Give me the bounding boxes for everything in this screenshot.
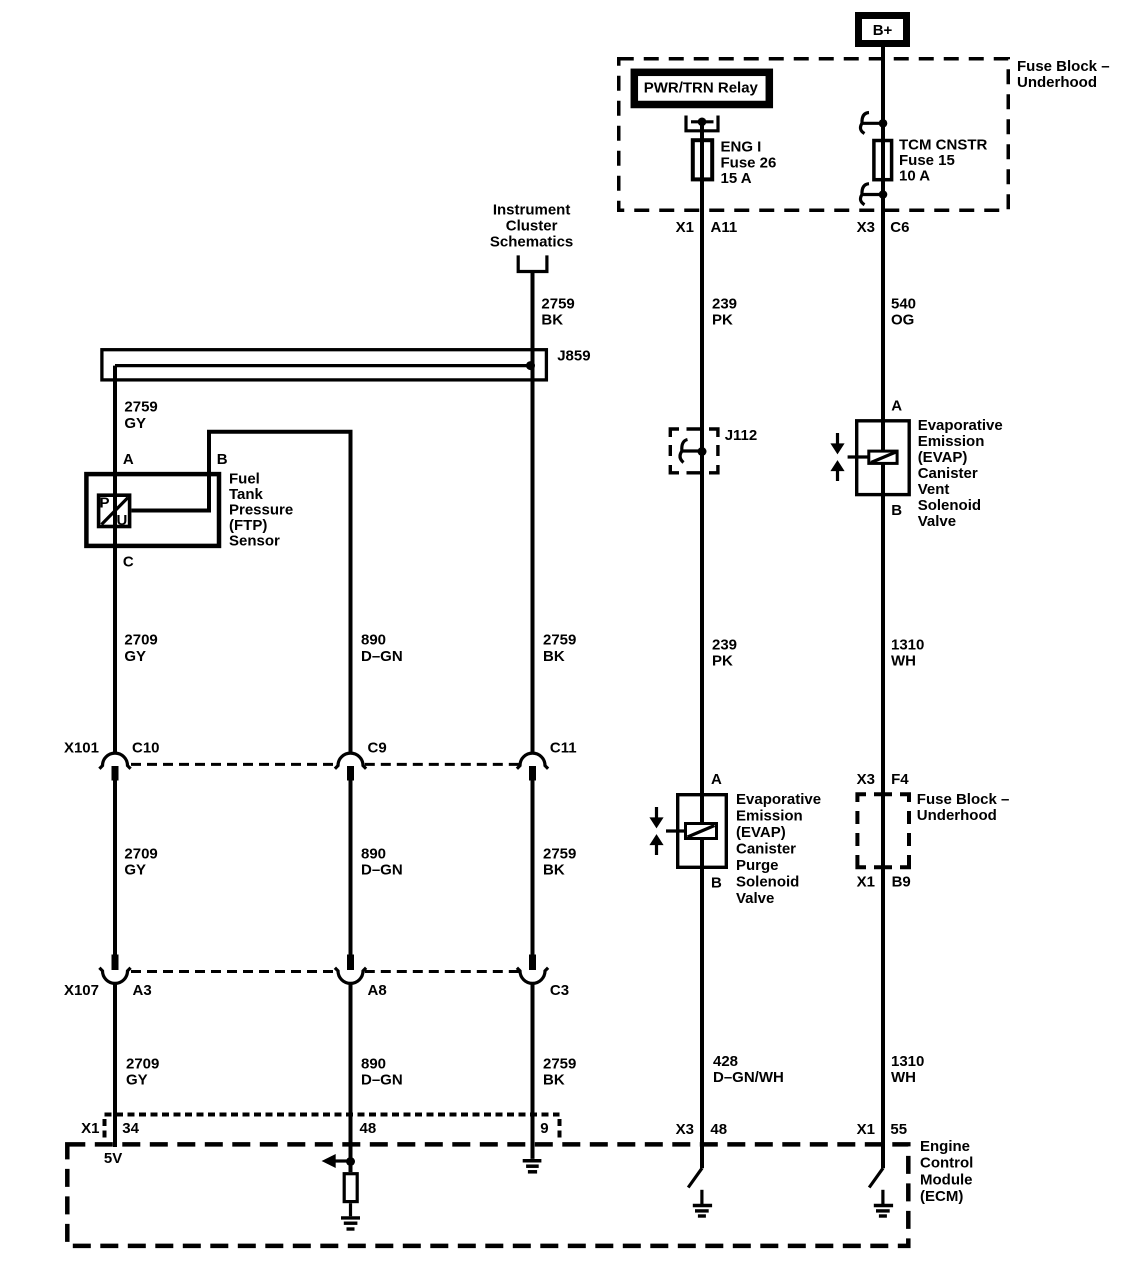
svg-text:890: 890 xyxy=(361,1055,386,1072)
svg-text:2709: 2709 xyxy=(124,845,157,862)
svg-text:J112: J112 xyxy=(725,427,758,444)
svg-text:Engine: Engine xyxy=(920,1138,970,1155)
svg-text:Purge: Purge xyxy=(736,857,779,874)
ground (pin 48 resistor) xyxy=(341,1218,360,1229)
svg-text:Vent: Vent xyxy=(918,481,950,498)
label EVAP canister vent xyxy=(918,417,1003,530)
svg-text:BK: BK xyxy=(543,648,565,665)
fuse block underhood 2 labels X3 F4 xyxy=(857,771,910,788)
svg-text:B: B xyxy=(217,451,228,468)
B+ power symbol xyxy=(859,16,907,44)
junction dot under relay xyxy=(698,118,707,127)
svg-text:Fuel: Fuel xyxy=(229,470,260,487)
fuse block underhood dashed box xyxy=(619,59,1009,211)
svg-text:Module: Module xyxy=(920,1171,973,1188)
svg-text:A: A xyxy=(891,398,902,415)
svg-text:P: P xyxy=(100,494,110,511)
ground (pin 9) xyxy=(523,1161,542,1172)
svg-text:D–GN/WH: D–GN/WH xyxy=(713,1069,784,1086)
svg-text:Valve: Valve xyxy=(918,513,956,530)
svg-text:Solenoid: Solenoid xyxy=(736,873,799,890)
svg-text:Cluster: Cluster xyxy=(506,217,558,234)
svg-text:WH: WH xyxy=(891,1069,916,1086)
svg-text:2759: 2759 xyxy=(543,632,576,649)
P/U transducer box xyxy=(99,494,130,529)
svg-text:J859: J859 xyxy=(557,347,590,364)
svg-text:ENG I: ENG I xyxy=(721,139,762,156)
connector terminal C10 xyxy=(99,739,159,780)
svg-text:C6: C6 xyxy=(890,219,909,236)
label 890 D-GN (row 1) xyxy=(361,632,403,665)
svg-text:890: 890 xyxy=(361,632,386,649)
ECM dashed box xyxy=(67,1144,908,1246)
svg-text:B+: B+ xyxy=(873,22,893,39)
svg-text:(ECM): (ECM) xyxy=(920,1188,963,1205)
label 540 OG xyxy=(891,296,916,329)
svg-text:B: B xyxy=(711,874,722,891)
splice J112 xyxy=(670,427,757,473)
svg-text:PK: PK xyxy=(712,653,733,670)
svg-text:X1: X1 xyxy=(81,1120,99,1137)
svg-text:Sensor: Sensor xyxy=(229,533,280,550)
svg-text:X1: X1 xyxy=(857,874,875,891)
connector X101 dashed line xyxy=(64,739,520,764)
svg-text:55: 55 xyxy=(890,1121,907,1138)
label Instrument Cluster Schematics xyxy=(490,201,573,250)
svg-text:BK: BK xyxy=(543,1072,565,1089)
wire 890 D-GN column: sensor B terminal jog down to ECM xyxy=(209,432,351,754)
svg-text:TCM CNSTR: TCM CNSTR xyxy=(899,136,987,153)
svg-text:X101: X101 xyxy=(64,739,99,756)
svg-text:GY: GY xyxy=(124,415,146,432)
relay output terminal cup xyxy=(686,116,718,131)
label 428 D-GN/WH xyxy=(713,1053,784,1086)
svg-text:Evaporative: Evaporative xyxy=(918,417,1003,434)
svg-text:B9: B9 xyxy=(892,874,911,891)
svg-text:X1: X1 xyxy=(676,219,694,236)
svg-text:BK: BK xyxy=(541,312,563,329)
label 890 D-GN (row 2) xyxy=(361,845,403,878)
svg-text:2709: 2709 xyxy=(126,1055,159,1072)
svg-text:1310: 1310 xyxy=(891,636,924,653)
label Fuse Block - Underhood (2) xyxy=(917,791,1010,824)
svg-text:9: 9 xyxy=(540,1120,548,1137)
label 2709 GY (row 2) xyxy=(124,845,157,878)
wire 2759 BK column from bracket to ECM ground xyxy=(531,272,535,755)
svg-text:B: B xyxy=(891,502,902,519)
svg-text:Fuse 15: Fuse 15 xyxy=(899,152,955,169)
svg-text:10 A: 10 A xyxy=(899,168,930,185)
svg-text:48: 48 xyxy=(710,1121,727,1138)
label 1310 WH (mid) xyxy=(891,636,924,669)
svg-text:X3: X3 xyxy=(676,1121,694,1138)
svg-text:2709: 2709 xyxy=(124,632,157,649)
svg-text:Tank: Tank xyxy=(229,486,264,503)
label 2759 BK (row 2) xyxy=(543,845,576,878)
svg-text:X107: X107 xyxy=(64,982,99,999)
svg-text:C3: C3 xyxy=(550,982,569,999)
label 1310 WH (bottom) xyxy=(891,1053,924,1086)
svg-text:Canister: Canister xyxy=(918,465,978,482)
EVAP canister vent solenoid valve xyxy=(830,398,909,519)
svg-text:Schematics: Schematics xyxy=(490,233,573,250)
svg-text:A11: A11 xyxy=(711,219,738,236)
fuse TCM CNSTR Fuse 15 xyxy=(874,136,988,184)
svg-text:F4: F4 xyxy=(891,771,909,788)
svg-text:2759: 2759 xyxy=(124,399,157,416)
fuse block underhood 2 labels X1 B9 xyxy=(857,874,911,891)
label EVAP canister purge xyxy=(736,791,821,907)
ECM switch pin 55 (X1) xyxy=(869,1168,883,1204)
svg-text:34: 34 xyxy=(122,1120,139,1137)
wire 540 OG / 1310 WH column from B+ to ECM xyxy=(881,47,885,1168)
svg-text:Underhood: Underhood xyxy=(917,807,997,824)
svg-text:428: 428 xyxy=(713,1053,738,1070)
svg-text:BK: BK xyxy=(543,862,565,879)
fuse clip top xyxy=(860,113,887,134)
ECM connector X1 dotted line xyxy=(105,1115,560,1139)
svg-text:PWR/TRN Relay: PWR/TRN Relay xyxy=(644,80,759,97)
svg-text:(EVAP): (EVAP) xyxy=(736,824,786,841)
svg-text:Fuse 26: Fuse 26 xyxy=(721,154,777,171)
ground (X1 55) xyxy=(874,1206,893,1217)
svg-text:GY: GY xyxy=(124,862,146,879)
svg-text:A: A xyxy=(711,771,722,788)
pin labels X1 A11 xyxy=(676,219,738,236)
svg-text:Fuse Block –: Fuse Block – xyxy=(917,791,1010,808)
svg-text:PK: PK xyxy=(712,312,733,329)
svg-text:239: 239 xyxy=(712,636,737,653)
connector terminal C9 xyxy=(335,739,387,780)
svg-text:X1: X1 xyxy=(857,1121,875,1138)
label 2759 BK (top) xyxy=(541,296,574,329)
svg-text:GY: GY xyxy=(126,1072,148,1089)
relay PWR/TRN xyxy=(634,72,769,104)
svg-text:GY: GY xyxy=(124,648,146,665)
wire resistor to ground xyxy=(349,1203,352,1216)
svg-text:C10: C10 xyxy=(132,739,160,756)
svg-text:D–GN: D–GN xyxy=(361,1072,403,1089)
connector terminal A3 xyxy=(99,955,151,999)
fuse clip bottom xyxy=(860,184,887,205)
label 2759 BK (bottom) xyxy=(543,1055,576,1088)
splice pack J859 box xyxy=(102,347,591,380)
ECM internal: junction dot pin 48 xyxy=(346,1157,355,1166)
label Engine Control Module (ECM) xyxy=(920,1138,973,1205)
fuse ENG I Fuse 26 xyxy=(693,139,777,187)
ECM switch pin 48 (X3) xyxy=(688,1168,702,1204)
svg-text:OG: OG xyxy=(891,312,914,329)
resistor in ECM xyxy=(344,1174,357,1202)
label 2709 GY (row 1) xyxy=(124,632,157,665)
FTP sensor box xyxy=(86,474,219,546)
pin labels X3 C6 xyxy=(857,219,910,236)
svg-text:Underhood: Underhood xyxy=(1017,74,1097,91)
svg-text:(EVAP): (EVAP) xyxy=(918,449,968,466)
svg-text:Solenoid: Solenoid xyxy=(918,497,981,514)
svg-text:Valve: Valve xyxy=(736,890,774,907)
svg-text:C11: C11 xyxy=(550,739,577,756)
ECM pin labels X1 55 xyxy=(857,1121,907,1138)
svg-text:D–GN: D–GN xyxy=(361,648,403,665)
svg-text:Control: Control xyxy=(920,1155,973,1172)
label 890 D-GN (bottom) xyxy=(361,1055,403,1088)
svg-text:5V: 5V xyxy=(104,1150,122,1167)
svg-text:Evaporative: Evaporative xyxy=(736,791,821,808)
svg-text:48: 48 xyxy=(360,1120,377,1137)
ECM pin labels X3 48 xyxy=(676,1121,727,1138)
svg-text:Canister: Canister xyxy=(736,840,796,857)
svg-text:WH: WH xyxy=(891,653,916,670)
connector terminal C11 xyxy=(517,739,577,780)
ECM pin labels X1 34 48 9 xyxy=(81,1120,548,1137)
label 239 PK (mid) xyxy=(712,636,737,669)
label Fuel Tank Pressure (FTP) Sensor xyxy=(229,470,293,549)
svg-text:Emission: Emission xyxy=(918,433,985,450)
svg-text:2759: 2759 xyxy=(543,1055,576,1072)
svg-text:C9: C9 xyxy=(368,739,387,756)
svg-text:X3: X3 xyxy=(857,219,875,236)
label 2709 GY (bottom) xyxy=(126,1055,159,1088)
wire 2709 GY column from J859 to ECM xyxy=(113,366,117,754)
connector terminal C3 xyxy=(517,955,569,999)
connector X107 dashed line xyxy=(64,972,520,999)
svg-text:Pressure: Pressure xyxy=(229,501,293,518)
label 239 PK (top) xyxy=(712,296,737,329)
wire 239 PK column from relay to ECM xyxy=(700,122,704,1168)
svg-text:2759: 2759 xyxy=(543,845,576,862)
svg-text:(FTP): (FTP) xyxy=(229,517,267,534)
fuse block underhood 2 dashed box xyxy=(857,794,909,867)
off-page bracket xyxy=(518,255,547,271)
svg-text:Emission: Emission xyxy=(736,807,803,824)
sensor internal wire to B xyxy=(131,472,209,511)
svg-text:A3: A3 xyxy=(133,982,152,999)
label 2759 GY xyxy=(124,399,157,432)
connector terminal A8 xyxy=(335,955,387,999)
svg-text:Instrument: Instrument xyxy=(493,201,571,218)
relay contact bar xyxy=(691,120,714,123)
EVAP canister purge solenoid valve xyxy=(649,771,726,891)
svg-text:C: C xyxy=(123,553,134,570)
svg-text:15 A: 15 A xyxy=(721,170,752,187)
svg-text:X3: X3 xyxy=(857,771,875,788)
svg-text:U: U xyxy=(117,512,128,529)
svg-text:2759: 2759 xyxy=(541,296,574,313)
svg-text:540: 540 xyxy=(891,296,916,313)
svg-text:890: 890 xyxy=(361,845,386,862)
svg-text:239: 239 xyxy=(712,296,737,313)
svg-text:A: A xyxy=(123,451,134,468)
label 2759 BK (row 1) xyxy=(543,632,576,665)
svg-text:1310: 1310 xyxy=(891,1053,924,1070)
svg-text:A8: A8 xyxy=(368,982,387,999)
arrow to other circuits xyxy=(322,1154,351,1168)
svg-text:D–GN: D–GN xyxy=(361,862,403,879)
svg-text:Fuse Block –: Fuse Block – xyxy=(1017,58,1110,75)
ground (X3 48) xyxy=(693,1206,712,1217)
label Fuse Block - Underhood (top) xyxy=(1017,58,1110,91)
